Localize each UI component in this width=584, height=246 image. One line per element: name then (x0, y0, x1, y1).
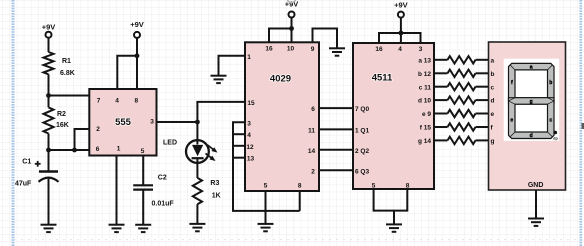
display window (504, 59, 560, 141)
LED D1 (186, 140, 209, 163)
svg-text:c: c (491, 84, 495, 91)
wire LED to R3 (196, 159, 198, 178)
svg-text:555: 555 (115, 117, 132, 128)
wire +9V to 4511 pin 4 (400, 18, 402, 43)
resistor R4 segment a (448, 56, 476, 63)
wire jam pin 4 stub (233, 133, 245, 135)
ground (R3) (189, 223, 205, 225)
wire Q2 net (319, 149, 353, 151)
selection marquee left edge (12, 0, 15, 246)
svg-text:5: 5 (141, 148, 145, 155)
wire 4029 pin 8 down (299, 191, 301, 211)
svg-text:+9V: +9V (394, 1, 408, 10)
svg-text:c: c (549, 118, 552, 124)
wire node to 555 pin 7 (49, 95, 90, 97)
wire to 4511 pin 16 (379, 33, 401, 43)
wire R2 to C1 node (48, 134, 50, 172)
seven-segment digit (509, 63, 555, 104)
resistor R10 segment g (448, 137, 476, 144)
node junction pins 16-4-3 (399, 31, 404, 36)
ground (display) (528, 218, 544, 220)
resistor R8 segment e (448, 110, 476, 117)
svg-text:a: a (491, 57, 495, 64)
svg-text:LED: LED (163, 140, 177, 147)
wire to 555 pin 4 (117, 56, 137, 89)
wire 555 pin 1 to ground (116, 156, 118, 225)
svg-text:g: g (491, 138, 495, 145)
svg-text:4511: 4511 (372, 72, 393, 83)
wire R3 to ground (196, 204, 198, 224)
resistor R9 segment f (448, 123, 476, 130)
faded terminal artifact (287, 0, 295, 3)
wire jam inputs rail (233, 122, 300, 211)
svg-text:14: 14 (308, 148, 316, 155)
svg-text:R3: R3 (210, 180, 219, 187)
wire 555 pin 5 to C2 (142, 156, 144, 186)
svg-text:f 15: f 15 (420, 125, 432, 132)
svg-text:1K: 1K (212, 192, 221, 199)
svg-text:a 13: a 13 (418, 57, 431, 64)
svg-text:0.01uF: 0.01uF (152, 201, 175, 208)
capacitor C2 (133, 184, 153, 186)
svg-text:16: 16 (375, 46, 383, 53)
ground (4029 pin 1) (211, 75, 227, 77)
svg-text:9: 9 (311, 46, 315, 53)
svg-text:5: 5 (372, 183, 376, 190)
svg-text:8: 8 (298, 183, 302, 190)
svg-text:a: a (530, 65, 533, 71)
svg-text:+9V: +9V (285, 0, 299, 9)
svg-text:7 Q0: 7 Q0 (355, 106, 369, 113)
ground (4029 pins 5/8) (258, 223, 274, 225)
svg-text:4: 4 (247, 132, 251, 139)
svg-text:+9V: +9V (130, 20, 144, 29)
wire Q1 net (319, 128, 353, 130)
svg-text:7: 7 (97, 97, 101, 104)
svg-text:3: 3 (419, 46, 423, 53)
wire +9V to 4029 pin 10 (291, 18, 293, 43)
svg-text:d: d (491, 98, 495, 105)
svg-text:C2: C2 (158, 175, 167, 182)
wire segment g to display (476, 139, 489, 141)
LED emission arrows (208, 145, 216, 151)
op-amp timer U1 555 (89, 89, 156, 156)
counter U2 4029 (245, 42, 319, 191)
wire to 555 pin 2 (75, 129, 90, 150)
wire segment b to display (476, 72, 489, 74)
wire Q3 net (319, 169, 353, 171)
svg-text:1 Q1: 1 Q1 (355, 127, 369, 134)
wire 4511 segment b lead (434, 72, 448, 74)
resistor R3 (193, 178, 202, 204)
svg-text:GND: GND (528, 182, 544, 189)
ground (4511) (386, 223, 402, 225)
wire 4511 segment g lead (434, 139, 448, 141)
wire R1 to R2 (48, 74, 50, 107)
wire 4511 segment e lead (434, 113, 448, 115)
resistor R2 (44, 107, 54, 133)
svg-text:5: 5 (264, 183, 268, 190)
svg-text:e: e (491, 111, 495, 118)
svg-text:d: d (530, 133, 533, 139)
svg-text:d 10: d 10 (418, 98, 431, 105)
svg-text:g 14: g 14 (418, 138, 431, 145)
svg-text:6: 6 (96, 146, 100, 153)
ground (C2) (135, 224, 151, 226)
svg-text:2: 2 (96, 126, 100, 133)
svg-text:3: 3 (247, 121, 251, 128)
wire 4511 segment d lead (434, 99, 448, 101)
wire 4511 segment f lead (434, 126, 448, 128)
wire segment f to display (476, 126, 489, 128)
svg-text:1: 1 (117, 146, 121, 153)
wire 555 pin 3 output (157, 121, 198, 123)
wire jam pin 13 stub (233, 157, 245, 159)
svg-text:R2: R2 (57, 111, 66, 118)
svg-text:2: 2 (311, 168, 315, 175)
resistor R1 (44, 52, 54, 74)
wire 4511 pins 5/8 to ground (374, 189, 408, 211)
node junction R2/C1/pin6 (46, 148, 51, 153)
svg-text:4029: 4029 (270, 73, 291, 84)
wire segment c to display (476, 86, 489, 88)
resistor R6 segment c (448, 83, 476, 90)
svg-text:4: 4 (398, 46, 402, 53)
wire C2 to ground (142, 190, 144, 225)
node junction pin3/LED/clock (195, 120, 200, 125)
selection marquee right edge (579, 0, 582, 246)
svg-text:C1: C1 (22, 158, 31, 165)
wire segment d to display (476, 99, 489, 101)
svg-text:8: 8 (406, 183, 410, 190)
svg-text:3: 3 (150, 119, 154, 126)
svg-text:16K: 16K (56, 122, 69, 129)
svg-text:2 Q2: 2 Q2 (355, 148, 369, 155)
svg-text:b: b (549, 80, 552, 86)
node junction R1/R2/pin7 (46, 93, 51, 98)
node junction pins 4-8 (135, 53, 140, 58)
display DS1 board (489, 42, 566, 190)
svg-text:15: 15 (247, 100, 255, 107)
resistor R5 segment b (448, 70, 476, 77)
svg-text:1: 1 (247, 54, 251, 61)
wire segment e to display (476, 113, 489, 115)
svg-text:47uF: 47uF (15, 180, 32, 187)
ground (C1) (41, 224, 57, 226)
resistor R7 segment d (448, 96, 476, 103)
wire Q0 net (319, 107, 353, 109)
wire 4511 segment a lead (434, 59, 448, 61)
svg-text:6 Q3: 6 Q3 (355, 168, 369, 175)
svg-text:8: 8 (134, 97, 138, 104)
svg-text:16: 16 (265, 45, 273, 52)
wire to 4511 pin 3 (401, 33, 421, 43)
ground (4029 pin 9) (329, 47, 345, 49)
wire +9V to R1 (48, 38, 50, 52)
wire to 4029 pin 16 (269, 29, 292, 43)
wire segment a to display (476, 59, 489, 61)
svg-text:c 11: c 11 (419, 84, 432, 91)
svg-text:6: 6 (311, 106, 315, 113)
ground (555 pin 1) (109, 224, 125, 226)
wire 4029 pin 9 to ground (313, 29, 338, 49)
wire 4511 segment c lead (434, 86, 448, 88)
svg-text:b 12: b 12 (418, 71, 431, 78)
wire display GND to ground (535, 190, 537, 219)
wire +9V to 555 pin 8 (136, 38, 138, 89)
svg-text:10: 10 (287, 45, 295, 52)
svg-text:11: 11 (308, 127, 315, 134)
svg-text:6.8K: 6.8K (60, 70, 75, 77)
wire jam pin 12 stub (233, 145, 245, 147)
svg-text:b: b (491, 71, 495, 78)
wire node to 555 pin 6 (49, 149, 90, 151)
wire C1 to ground (48, 179, 50, 225)
svg-text:e: e (510, 118, 513, 124)
svg-text:e 9: e 9 (422, 111, 431, 118)
svg-text:R1: R1 (62, 58, 71, 65)
svg-text:g: g (530, 99, 533, 105)
svg-text:+9V: +9V (42, 23, 56, 32)
svg-text:13: 13 (247, 156, 255, 163)
node junction pins 16-10 (289, 26, 294, 31)
svg-text:12: 12 (246, 144, 254, 151)
decoder U3 4511 (353, 43, 434, 189)
node junction pin2 branch (72, 148, 77, 153)
capacitor C1 (39, 170, 58, 173)
wire 4029 pin 1 to ground (219, 56, 246, 76)
selection marquee bottom edge (14, 239, 580, 241)
wire 4029 pin 5 to ground (265, 191, 267, 224)
wire node up to 4029 pin 15 (197, 102, 245, 145)
svg-text:4: 4 (115, 97, 119, 104)
